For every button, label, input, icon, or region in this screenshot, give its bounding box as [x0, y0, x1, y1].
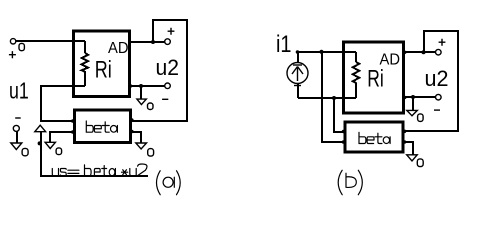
svg-text:i1: i1: [276, 31, 292, 58]
svg-text:u1: u1: [9, 78, 29, 104]
svg-text:u2: u2: [425, 66, 449, 91]
svg-text:Ri: Ri: [95, 57, 112, 84]
svg-text:u2: u2: [156, 55, 180, 80]
svg-text:AD: AD: [108, 40, 129, 57]
svg-text:Ri: Ri: [367, 65, 384, 92]
